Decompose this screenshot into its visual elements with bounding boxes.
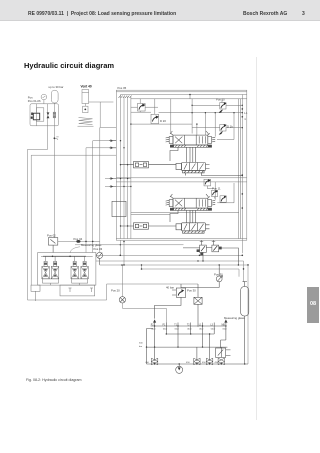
svg-text:bar: bar — [139, 345, 142, 348]
svg-text:L1: L1 — [244, 111, 248, 115]
svg-text:0bar: 0bar — [187, 328, 192, 331]
svg-text:Pos 02: Pos 02 — [47, 234, 56, 238]
svg-text:0bar: 0bar — [163, 328, 168, 331]
svg-text:450: 450 — [145, 362, 149, 364]
svg-text:450: 450 — [202, 362, 206, 364]
svg-text:450: 450 — [186, 362, 190, 364]
svg-text:Pos 30: Pos 30 — [187, 289, 196, 293]
svg-text:Pos 01-06: Pos 01-06 — [28, 99, 41, 103]
svg-text:0bar: 0bar — [151, 328, 156, 331]
svg-text:0bar: 0bar — [175, 328, 180, 331]
svg-text:Measuring glass: Measuring glass — [224, 316, 245, 320]
svg-text:Pos 30: Pos 30 — [214, 272, 223, 276]
svg-text:0bar: 0bar — [223, 328, 228, 331]
svg-text:up to 30 bar: up to 30 bar — [49, 85, 64, 89]
svg-text:0bar: 0bar — [211, 328, 216, 331]
svg-text:40 bar: 40 bar — [166, 286, 174, 290]
svg-text:300: 300 — [139, 343, 143, 345]
svg-text:0bar: 0bar — [199, 328, 204, 331]
svg-text:MB: MB — [222, 324, 226, 326]
svg-text:Pos 05: Pos 05 — [118, 86, 127, 90]
svg-text:Pos 04: Pos 04 — [74, 237, 83, 241]
svg-text:D 20: D 20 — [160, 119, 166, 123]
svg-text:D 1k: D 1k — [227, 125, 233, 129]
svg-text:1: 1 — [244, 117, 246, 121]
svg-text:Pos 11: Pos 11 — [212, 186, 221, 190]
svg-text:Pos 03: Pos 03 — [94, 247, 103, 251]
svg-text:Pos 10: Pos 10 — [216, 98, 225, 102]
svg-text:Pos 20: Pos 20 — [111, 289, 120, 293]
svg-text:Vent 40: Vent 40 — [81, 85, 92, 89]
